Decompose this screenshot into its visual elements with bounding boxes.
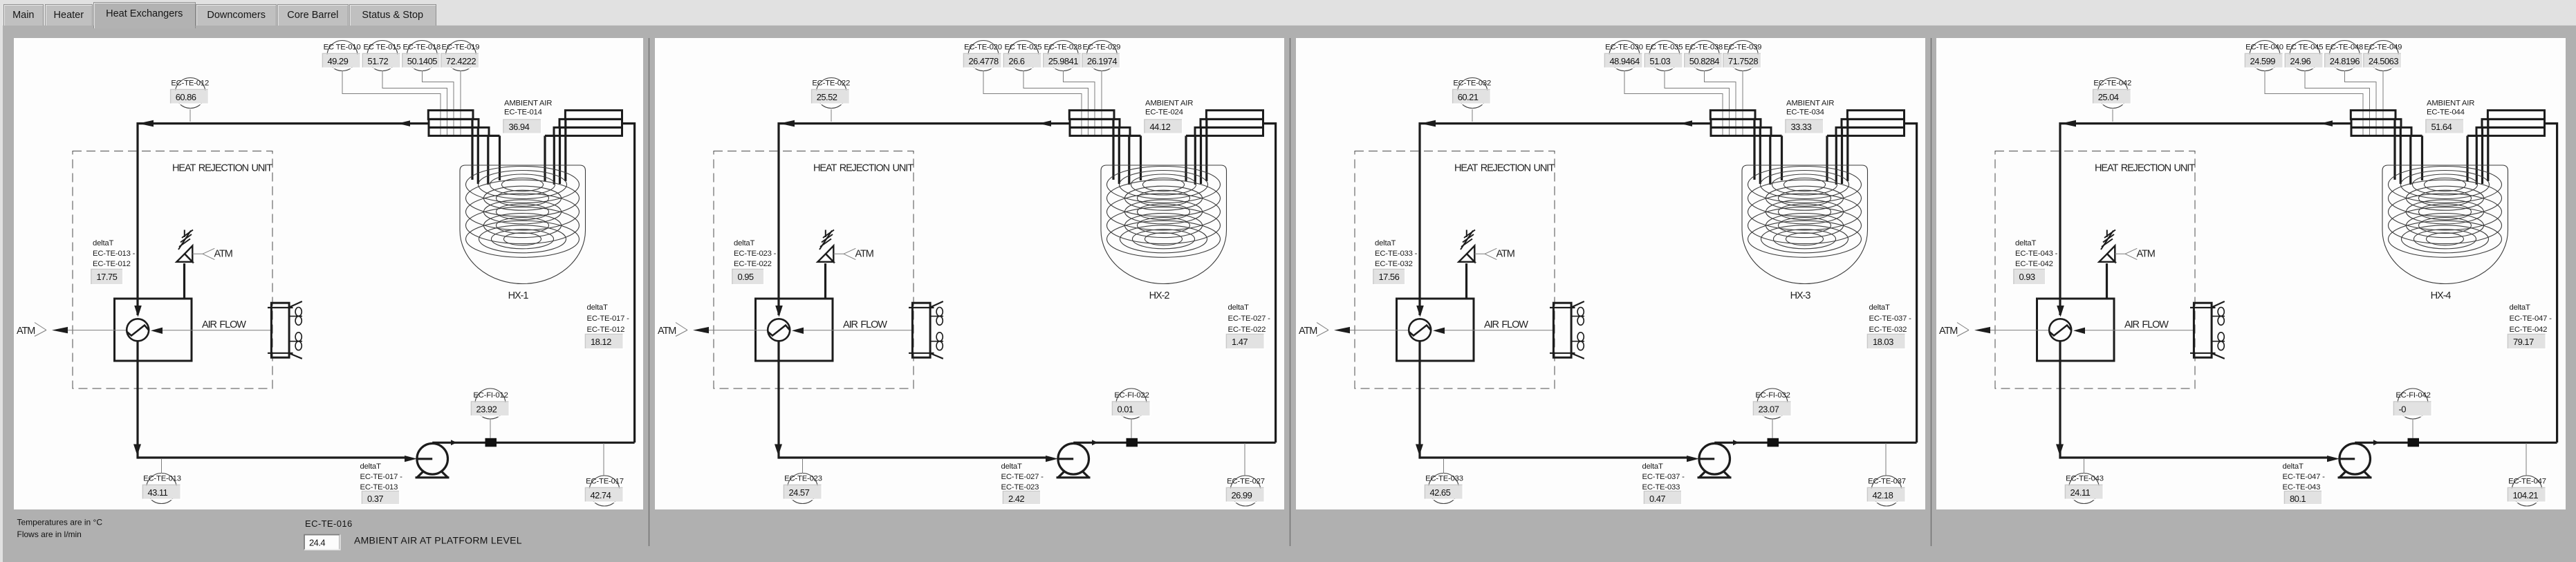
svg-text:HEAT REJECTION UNIT: HEAT REJECTION UNIT: [172, 163, 272, 174]
svg-text:26.99: 26.99: [1232, 490, 1252, 500]
svg-text:EC-TE-033 -: EC-TE-033 -: [1375, 250, 1418, 258]
HX inlet header (left): [1069, 111, 1140, 136]
svg-text:26.4778: 26.4778: [969, 56, 999, 66]
svg-text:Flows are in l/min: Flows are in l/min: [17, 530, 82, 539]
wire sensor 4 to header: [1742, 71, 1743, 135]
heat exchanger vessel HX-1: [460, 165, 586, 301]
svg-text:EC-TE-027 -: EC-TE-027 -: [1228, 315, 1271, 323]
circulation pump: [416, 444, 450, 478]
wire sensor 3 to header: [1064, 71, 1095, 135]
temperature sensor EC-TE-032: [1453, 78, 1491, 109]
coil pipes from left header: [1113, 119, 1141, 185]
svg-text:51.03: 51.03: [1649, 56, 1670, 66]
svg-text:EC-TE-022: EC-TE-022: [812, 79, 850, 88]
temperature sensor EC TE-035: [1644, 41, 1683, 71]
wire EC-TE-043: [2084, 459, 2085, 474]
svg-text:deltaT: deltaT: [93, 239, 113, 247]
svg-text:-0: -0: [2399, 404, 2407, 415]
wire sensor 2 to header: [382, 71, 447, 135]
svg-text:42.65: 42.65: [1430, 487, 1451, 498]
svg-text:50.8284: 50.8284: [1689, 56, 1719, 66]
svg-text:EC-FI-042: EC-FI-042: [2396, 391, 2430, 400]
svg-text:60.21: 60.21: [1458, 92, 1479, 102]
svg-text:deltaT: deltaT: [1642, 462, 1663, 471]
temperature sensor EC-TE-049: [2364, 41, 2402, 71]
temperature sensor EC-TE-020: [964, 41, 1002, 71]
flow indicator EC-FI-032: [1754, 388, 1792, 419]
svg-text:deltaT: deltaT: [1375, 239, 1396, 247]
wire EC-TE-037: [1885, 443, 1887, 476]
svg-text:EC-TE-012: EC-TE-012: [587, 326, 625, 334]
svg-text:25.52: 25.52: [817, 92, 837, 102]
svg-text:ATM: ATM: [2137, 249, 2155, 260]
svg-text:EC-TE-047: EC-TE-047: [2508, 478, 2546, 486]
wire EC-TE-017: [603, 443, 604, 476]
svg-text:EC TE-010: EC TE-010: [324, 44, 361, 52]
svg-text:EC-TE-038: EC-TE-038: [1685, 44, 1723, 52]
svg-text:17.56: 17.56: [1379, 272, 1400, 282]
HX inlet header (left): [428, 111, 499, 136]
svg-text:EC-TE-042: EC-TE-042: [2015, 260, 2053, 268]
svg-text:EC TE-045: EC TE-045: [2286, 44, 2323, 52]
wire EC-TE-033: [1443, 459, 1445, 474]
ATM exhaust connector: [658, 323, 756, 337]
supply pipe down into air cooler: [2057, 122, 2064, 317]
svg-text:23.92: 23.92: [476, 404, 497, 415]
heat exchanger coil: [1107, 167, 1221, 258]
svg-text:HX-1: HX-1: [508, 290, 529, 301]
wire sensor 4 to header: [2382, 71, 2384, 135]
wire EC-TE-032 to return pipe: [1472, 109, 1473, 122]
svg-text:EC-TE-042: EC-TE-042: [2093, 79, 2131, 88]
temperature sensor EC-TE-022: [812, 78, 850, 109]
svg-text:18.03: 18.03: [1873, 337, 1893, 347]
wire sensor 4 to header: [460, 71, 461, 135]
ambient air sensor EC-TE-034: [1786, 100, 1834, 134]
svg-text:EC-TE-022: EC-TE-022: [1228, 326, 1266, 334]
pipe to pump suction: [779, 456, 1073, 462]
temperature sensor EC TE-045: [2285, 41, 2323, 71]
svg-text:HEAT REJECTION UNIT: HEAT REJECTION UNIT: [813, 163, 914, 174]
heat rejection unit boundary: [1355, 151, 1555, 389]
fan unit: [268, 301, 302, 359]
ambient platform sensor EC-TE-016: [304, 518, 522, 550]
wire sensor 2 to header: [1665, 71, 1730, 135]
svg-text:deltaT: deltaT: [2283, 462, 2304, 471]
svg-text:deltaT: deltaT: [1869, 303, 1890, 312]
heat exchanger coil: [1748, 167, 1862, 258]
HX inlet header (left): [2351, 111, 2422, 136]
temperature sensor EC-TE-042: [2093, 78, 2131, 109]
svg-text:AIR FLOW: AIR FLOW: [1484, 319, 1528, 330]
svg-text:EC TE-025: EC TE-025: [1004, 44, 1041, 52]
pipe to pump suction: [2060, 456, 2355, 462]
pipe to pump suction: [138, 456, 432, 462]
svg-text:HEAT REJECTION UNIT: HEAT REJECTION UNIT: [2095, 163, 2195, 174]
svg-text:ATM: ATM: [17, 326, 35, 337]
svg-text:42.18: 42.18: [1873, 490, 1893, 500]
deltaT indicator EC-TE-043 - EC-TE-042: [2014, 239, 2058, 285]
svg-text:EC-TE-042: EC-TE-042: [2510, 326, 2548, 334]
deltaT indicator EC-TE-027 - EC-TE-023: [1001, 462, 1044, 505]
supply pipe down into air cooler: [775, 122, 783, 317]
svg-text:AIR FLOW: AIR FLOW: [2124, 319, 2169, 330]
svg-text:deltaT: deltaT: [587, 303, 608, 312]
temperature sensor EC-TE-029: [1082, 41, 1120, 71]
deltaT indicator EC-TE-037 - EC-TE-032: [1868, 303, 1912, 349]
air cooler box: [1397, 299, 1554, 361]
svg-text:EC-TE-023: EC-TE-023: [784, 475, 822, 483]
return pipe to heat rejection unit: [779, 120, 1069, 127]
wire EC-FI-022 to flow element: [1131, 419, 1132, 438]
deltaT indicator EC-TE-017 - EC-TE-012: [586, 303, 630, 349]
svg-text:deltaT: deltaT: [1001, 462, 1022, 471]
svg-text:18.12: 18.12: [591, 337, 611, 347]
pipe below air cooler: [133, 341, 141, 459]
svg-text:EC-TE-047 -: EC-TE-047 -: [2283, 473, 2326, 481]
svg-text:EC-TE-024: EC-TE-024: [1145, 109, 1183, 117]
svg-text:0.47: 0.47: [1649, 494, 1665, 504]
svg-text:EC-TE-032: EC-TE-032: [1453, 79, 1491, 88]
svg-text:ATM: ATM: [1299, 326, 1317, 337]
supply pipe down into air cooler: [134, 122, 142, 317]
temperature sensor EC-TE-039: [1723, 41, 1761, 71]
wire EC-TE-023: [802, 459, 804, 474]
heat exchanger vessel HX-4: [2382, 165, 2508, 301]
svg-text:EC-FI-022: EC-FI-022: [1114, 391, 1149, 400]
wire sensor 3 to header: [2345, 71, 2377, 135]
svg-text:44.12: 44.12: [1150, 122, 1171, 132]
svg-text:24.599: 24.599: [2250, 56, 2276, 66]
svg-text:42.74: 42.74: [591, 490, 611, 500]
svg-text:79.17: 79.17: [2513, 337, 2534, 347]
temperature sensor EC-TE-037: [1868, 476, 1906, 506]
fan unit: [1550, 301, 1584, 359]
deltaT indicator EC-TE-037 - EC-TE-033: [1642, 462, 1685, 505]
coil pipes from right header: [2467, 119, 2488, 185]
temperature sensor EC-TE-040: [2245, 41, 2283, 71]
svg-text:104.21: 104.21: [2513, 490, 2539, 500]
svg-text:43.11: 43.11: [148, 487, 168, 498]
circulation pump: [1057, 444, 1091, 478]
svg-text:26.1974: 26.1974: [1087, 56, 1117, 66]
wire EC-TE-042 to return pipe: [2112, 109, 2113, 122]
svg-text:72.4222: 72.4222: [446, 56, 476, 66]
pipe to pump suction: [1420, 456, 1714, 462]
pump discharge pipe: [1714, 124, 1916, 446]
svg-text:EC-TE-034: EC-TE-034: [1786, 109, 1824, 117]
temperature sensor EC-TE-023: [784, 474, 822, 504]
wire EC-TE-012 to return pipe: [189, 109, 191, 122]
pump discharge pipe: [432, 124, 634, 446]
svg-text:ATM: ATM: [855, 249, 873, 260]
temperature sensor EC-TE-017: [586, 476, 624, 506]
svg-text:EC-TE-037 -: EC-TE-037 -: [1869, 315, 1912, 323]
vent valve to atmosphere: [817, 230, 834, 299]
svg-text:ATM: ATM: [1497, 249, 1514, 260]
svg-text:EC TE-015: EC TE-015: [363, 44, 400, 52]
svg-text:24.5063: 24.5063: [2369, 56, 2398, 66]
svg-text:24.57: 24.57: [789, 487, 810, 498]
svg-text:EC-TE-027: EC-TE-027: [1227, 478, 1265, 486]
wire EC-TE-047: [2526, 443, 2527, 476]
svg-text:71.7528: 71.7528: [1728, 56, 1758, 66]
svg-text:80.1: 80.1: [2290, 494, 2306, 504]
deltaT indicator EC-TE-017 - EC-TE-013: [360, 462, 403, 505]
svg-text:25.9841: 25.9841: [1048, 56, 1078, 66]
temperature sensor EC-TE-027: [1227, 476, 1265, 506]
svg-text:EC-TE-027 -: EC-TE-027 -: [1001, 473, 1044, 481]
temperature sensor EC-TE-033: [1425, 474, 1463, 504]
svg-text:51.72: 51.72: [367, 56, 388, 66]
coil pipes from right header: [1827, 119, 1848, 185]
ambient air sensor EC-TE-044: [2426, 100, 2474, 134]
deltaT indicator EC-TE-027 - EC-TE-022: [1227, 303, 1271, 349]
temperature sensor EC TE-015: [362, 41, 400, 71]
svg-text:24.4: 24.4: [309, 538, 325, 548]
panel divider 1: [649, 38, 650, 546]
deltaT indicator EC-TE-033 - EC-TE-032: [1373, 239, 1418, 285]
svg-text:24.96: 24.96: [2290, 56, 2310, 66]
vent valve to atmosphere: [1458, 230, 1475, 299]
svg-text:26.6: 26.6: [1008, 56, 1024, 66]
svg-text:EC-TE-033: EC-TE-033: [1642, 483, 1680, 491]
svg-text:deltaT: deltaT: [360, 462, 381, 471]
svg-text:Temperatures are in °C: Temperatures are in °C: [17, 518, 103, 527]
temperature sensor EC TE-010: [323, 41, 361, 71]
svg-text:HEAT REJECTION UNIT: HEAT REJECTION UNIT: [1454, 163, 1555, 174]
coil pipes from right header: [545, 119, 566, 185]
air cooler box: [2037, 299, 2194, 361]
svg-text:EC-TE-022: EC-TE-022: [734, 260, 772, 268]
wire sensor 1 to header: [983, 71, 1082, 135]
svg-text:deltaT: deltaT: [1228, 303, 1249, 312]
wire sensor 1 to header: [342, 71, 441, 135]
svg-text:HX-2: HX-2: [1149, 290, 1170, 301]
wire EC-TE-027: [1244, 443, 1245, 476]
svg-text:EC TE-035: EC TE-035: [1645, 44, 1683, 52]
svg-text:51.64: 51.64: [2431, 122, 2452, 132]
svg-text:EC-TE-030: EC-TE-030: [1605, 44, 1643, 52]
HX outlet header (right): [2467, 111, 2545, 136]
flow element (orifice): [2408, 438, 2420, 447]
flow indicator EC-FI-012: [472, 388, 510, 419]
heat exchanger vessel HX-2: [1101, 165, 1227, 301]
air cooler box: [756, 299, 913, 361]
pump discharge pipe: [2355, 124, 2557, 446]
svg-text:EC-TE-013 -: EC-TE-013 -: [93, 250, 136, 258]
return pipe to heat rejection unit: [138, 120, 428, 127]
flow element (orifice): [485, 438, 497, 447]
heat exchanger vessel HX-3: [1742, 165, 1868, 301]
ATM exhaust connector: [1939, 323, 2037, 337]
svg-text:EC-FI-012: EC-FI-012: [473, 391, 508, 400]
svg-text:EC-TE-017 -: EC-TE-017 -: [360, 473, 403, 481]
panel divider 3: [1931, 38, 1932, 546]
coil pipes from right header: [1186, 119, 1207, 185]
svg-text:60.86: 60.86: [176, 92, 196, 102]
svg-text:EC-TE-037 -: EC-TE-037 -: [1642, 473, 1685, 481]
ATM connector at vent: [1474, 248, 1514, 259]
pump discharge pipe: [1073, 124, 1275, 446]
flow indicator EC-FI-042: [2394, 388, 2432, 419]
svg-text:EC-TE-013: EC-TE-013: [143, 475, 181, 483]
wire sensor 2 to header: [2305, 71, 2370, 135]
flow indicator EC-FI-022: [1113, 388, 1151, 419]
svg-text:EC-TE-033: EC-TE-033: [1425, 475, 1463, 483]
return pipe to heat rejection unit: [2060, 120, 2351, 127]
svg-text:49.29: 49.29: [328, 56, 349, 66]
ATM exhaust connector: [17, 323, 115, 337]
svg-text:EC-TE-049: EC-TE-049: [2364, 44, 2402, 52]
pipe below air cooler: [775, 341, 782, 459]
svg-text:EC-TE-023 -: EC-TE-023 -: [734, 250, 777, 258]
svg-text:EC-TE-013: EC-TE-013: [360, 483, 398, 491]
ambient air sensor EC-TE-014: [503, 100, 552, 134]
wire sensor 4 to header: [1101, 71, 1102, 135]
svg-text:23.07: 23.07: [1759, 404, 1779, 415]
temperature sensor EC-TE-019: [441, 41, 479, 71]
circulation pump: [2338, 444, 2372, 478]
svg-text:EC-TE-012: EC-TE-012: [93, 260, 131, 268]
wire sensor 1 to header: [2265, 71, 2363, 135]
svg-text:0.01: 0.01: [1118, 404, 1133, 415]
heat rejection unit boundary: [714, 151, 914, 389]
svg-text:EC-TE-020: EC-TE-020: [964, 44, 1002, 52]
svg-text:AIR FLOW: AIR FLOW: [843, 319, 887, 330]
svg-text:EC-TE-014: EC-TE-014: [504, 109, 542, 117]
circulation pump: [1698, 444, 1732, 478]
vent valve to atmosphere: [176, 230, 193, 299]
svg-text:EC-TE-043: EC-TE-043: [2066, 475, 2104, 483]
HX outlet header (right): [545, 111, 622, 136]
panel backgrounds: [14, 38, 643, 509]
svg-text:EC-TE-012: EC-TE-012: [171, 79, 209, 88]
deltaT indicator EC-TE-047 - EC-TE-042: [2508, 303, 2552, 349]
svg-text:24.8196: 24.8196: [2330, 56, 2360, 66]
svg-text:ATM: ATM: [1939, 326, 1957, 337]
vent valve to atmosphere: [2099, 230, 2115, 299]
temperature sensor EC TE-025: [1003, 41, 1041, 71]
supply pipe down into air cooler: [1416, 122, 1424, 317]
wire sensor 3 to header: [1705, 71, 1736, 135]
temperature sensor EC-TE-048: [2325, 41, 2363, 71]
ATM connector at vent: [833, 248, 873, 259]
flow element (orifice): [1768, 438, 1779, 447]
coil pipes from left header: [1754, 119, 1782, 185]
svg-text:EC-TE-037: EC-TE-037: [1868, 478, 1906, 486]
wire EC-FI-012 to flow element: [490, 419, 491, 438]
wire sensor 3 to header: [423, 71, 454, 135]
svg-text:deltaT: deltaT: [734, 239, 754, 247]
temperature sensor EC-TE-047: [2508, 476, 2546, 506]
svg-text:EC-TE-023: EC-TE-023: [1001, 483, 1039, 491]
temperature sensor EC-TE-013: [143, 474, 181, 504]
svg-text:AMBIENT AIR: AMBIENT AIR: [1786, 100, 1834, 108]
temperature sensor EC-TE-038: [1685, 41, 1723, 71]
svg-text:deltaT: deltaT: [2015, 239, 2036, 247]
svg-text:EC-TE-019: EC-TE-019: [442, 44, 480, 52]
panel divider 2: [1290, 38, 1291, 546]
svg-text:0.95: 0.95: [738, 272, 754, 282]
svg-text:EC-TE-039: EC-TE-039: [1724, 44, 1762, 52]
ATM connector at vent: [2115, 248, 2154, 259]
svg-text:EC-FI-032: EC-FI-032: [1755, 391, 1790, 400]
flow element (orifice): [1127, 438, 1138, 447]
fan unit: [909, 301, 943, 359]
svg-text:EC-TE-017 -: EC-TE-017 -: [587, 315, 630, 323]
temperature sensor EC-TE-018: [402, 41, 441, 71]
HX outlet header (right): [1186, 111, 1263, 136]
HX outlet header (right): [1827, 111, 1905, 136]
svg-text:17.75: 17.75: [97, 272, 118, 282]
heat exchanger coil: [466, 167, 580, 258]
svg-text:24.11: 24.11: [2070, 487, 2091, 498]
svg-text:HX-3: HX-3: [1790, 290, 1811, 301]
svg-text:HX-4: HX-4: [2431, 290, 2452, 301]
ATM connector at vent: [192, 248, 232, 259]
svg-text:EC-TE-032: EC-TE-032: [1375, 260, 1413, 268]
deltaT indicator EC-TE-023 - EC-TE-022: [732, 239, 777, 285]
deltaT indicator EC-TE-013 - EC-TE-012: [91, 239, 136, 285]
svg-text:AMBIENT AIR: AMBIENT AIR: [1145, 100, 1193, 108]
svg-text:EC-TE-043: EC-TE-043: [2283, 483, 2321, 491]
temperature sensor EC-TE-012: [171, 78, 209, 109]
svg-text:EC-TE-040: EC-TE-040: [2245, 44, 2283, 52]
fan unit: [2190, 301, 2225, 359]
svg-text:48.9464: 48.9464: [1610, 56, 1640, 66]
svg-text:0.37: 0.37: [367, 494, 383, 504]
coil pipes from left header: [472, 119, 500, 185]
svg-text:33.33: 33.33: [1791, 122, 1812, 132]
svg-text:EC-TE-048: EC-TE-048: [2325, 44, 2363, 52]
svg-text:AMBIENT AIR AT PLATFORM LEVEL: AMBIENT AIR AT PLATFORM LEVEL: [354, 535, 522, 546]
HX inlet header (left): [1710, 111, 1781, 136]
svg-text:AMBIENT AIR: AMBIENT AIR: [504, 100, 552, 108]
air cooler box: [115, 299, 272, 361]
ambient air sensor EC-TE-024: [1145, 100, 1193, 134]
svg-text:EC-TE-016: EC-TE-016: [305, 518, 353, 529]
heat rejection unit boundary: [1995, 151, 2195, 389]
svg-text:50.1405: 50.1405: [407, 56, 437, 66]
svg-text:0.93: 0.93: [2019, 272, 2035, 282]
wire EC-TE-022 to return pipe: [831, 109, 832, 122]
svg-text:EC-TE-018: EC-TE-018: [402, 44, 441, 52]
svg-text:EC-TE-047 -: EC-TE-047 -: [2510, 315, 2552, 323]
svg-text:EC-TE-029: EC-TE-029: [1083, 44, 1121, 52]
pipe below air cooler: [1416, 341, 1423, 459]
temperature sensor EC-TE-043: [2066, 474, 2104, 504]
coil pipes from left header: [2395, 119, 2422, 185]
svg-text:1.47: 1.47: [1232, 337, 1248, 347]
wire EC-TE-013: [161, 459, 163, 474]
svg-text:EC-TE-044: EC-TE-044: [2427, 109, 2465, 117]
pipe below air cooler: [2056, 341, 2064, 459]
svg-text:ATM: ATM: [214, 249, 232, 260]
svg-text:EC-TE-017: EC-TE-017: [586, 478, 624, 486]
deltaT indicator EC-TE-047 - EC-TE-043: [2283, 462, 2326, 505]
svg-text:EC-TE-043 -: EC-TE-043 -: [2015, 250, 2058, 258]
svg-text:25.04: 25.04: [2098, 92, 2119, 102]
svg-text:EC-TE-028: EC-TE-028: [1044, 44, 1082, 52]
wire sensor 1 to header: [1624, 71, 1723, 135]
svg-text:ATM: ATM: [658, 326, 676, 337]
heat exchanger coil: [2389, 167, 2502, 258]
svg-text:EC-TE-032: EC-TE-032: [1869, 326, 1907, 334]
wire EC-FI-032 to flow element: [1772, 419, 1773, 438]
wire sensor 2 to header: [1023, 71, 1088, 135]
svg-text:AMBIENT AIR: AMBIENT AIR: [2427, 100, 2474, 108]
